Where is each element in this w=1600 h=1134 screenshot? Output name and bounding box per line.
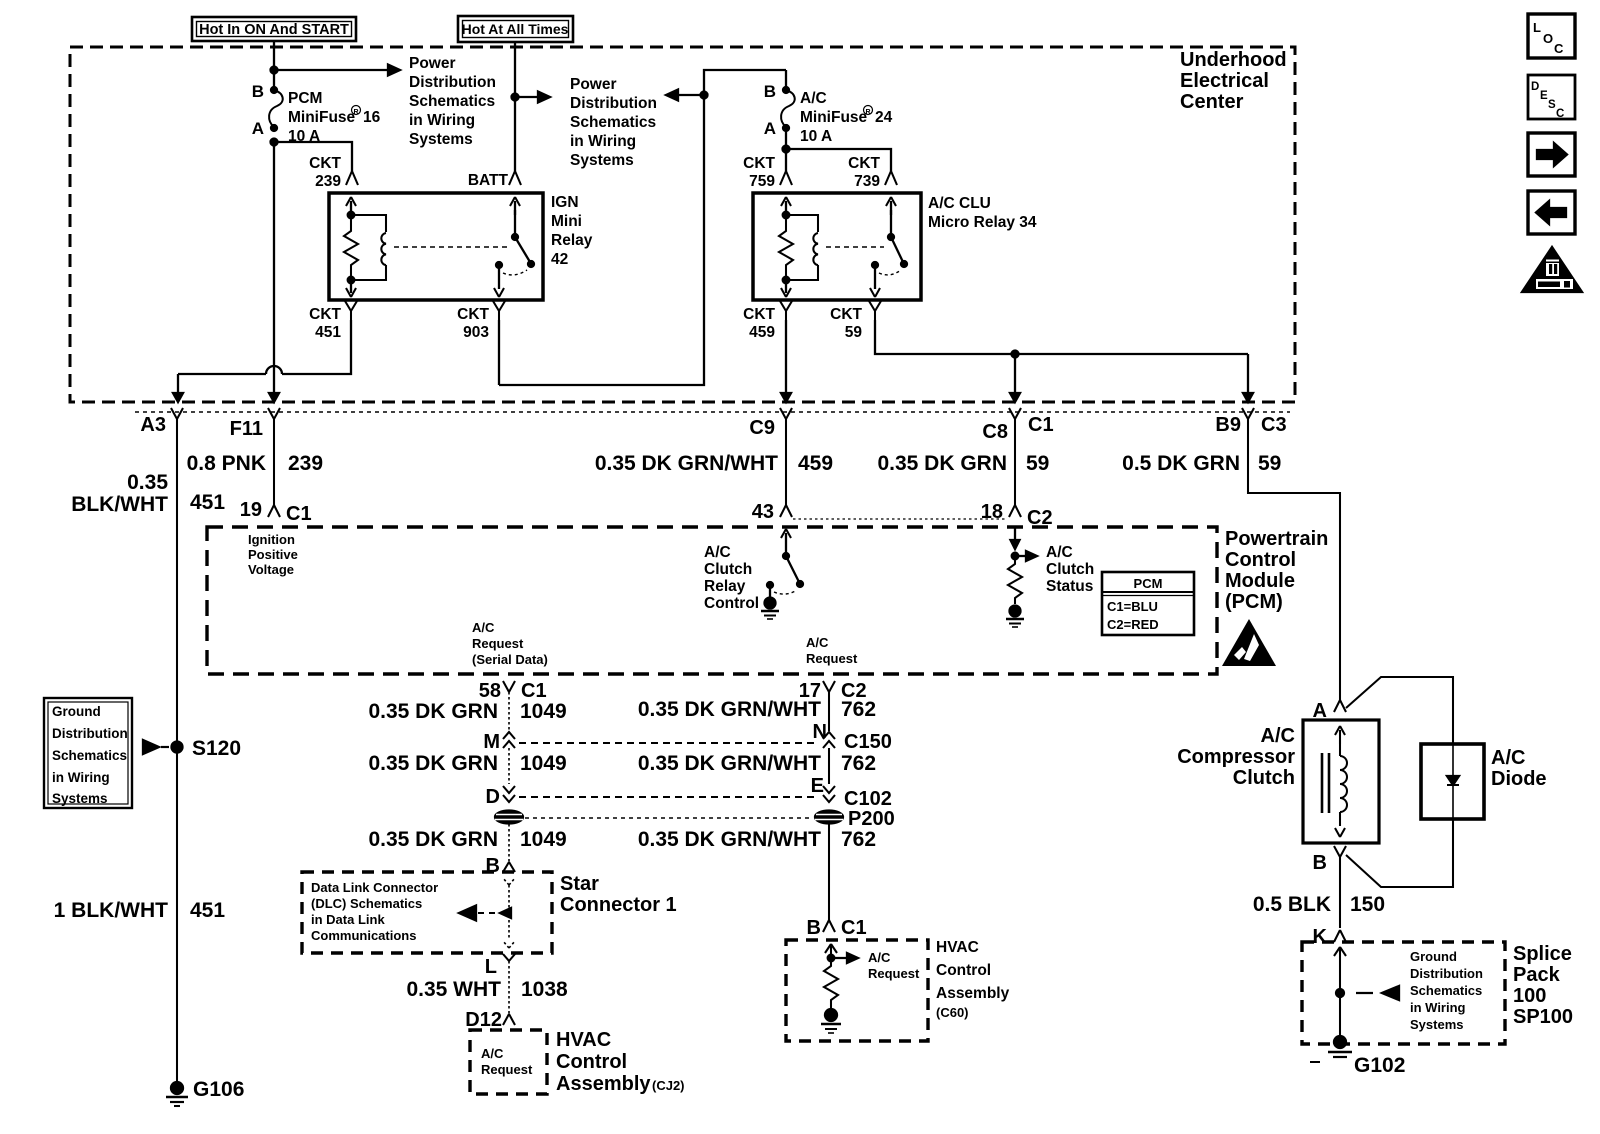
node junction in splice pack xyxy=(1336,989,1344,997)
svg-text:1038: 1038 xyxy=(521,978,568,1001)
connector C150 inline row xyxy=(483,721,891,753)
PCM clutch relay driver switch xyxy=(781,529,803,587)
icon DESC button xyxy=(1528,75,1575,120)
HVAC control assembly C60 dashed box xyxy=(786,940,928,1041)
svg-text:BLK/WHT: BLK/WHT xyxy=(71,493,168,516)
pin CKT739 into relay K2 (fork) xyxy=(885,171,897,185)
A/C diode box xyxy=(1421,744,1484,819)
svg-text:E: E xyxy=(1540,90,1548,102)
svg-text:Systems: Systems xyxy=(52,791,108,806)
svg-text:(Serial Data): (Serial Data) xyxy=(472,652,548,667)
svg-text:Relay: Relay xyxy=(551,232,593,249)
label Ground Distribution Schematics in Wiring Systems (splice) xyxy=(1410,949,1483,1032)
relay K1 coil resistor xyxy=(344,212,358,284)
svg-text:762: 762 xyxy=(841,752,876,775)
svg-text:Request: Request xyxy=(481,1062,533,1077)
relay K1 coil winding parallel branch xyxy=(351,215,386,280)
relay K2 NO contact to CKT59 xyxy=(870,262,901,297)
svg-text:18: 18 xyxy=(981,501,1003,523)
svg-text:Connector 1: Connector 1 xyxy=(560,894,677,916)
relay K1 actuating dashed link xyxy=(394,246,508,248)
svg-text:B: B xyxy=(807,917,821,939)
pin C8 / C1 connector fork xyxy=(982,408,1053,443)
svg-text:43: 43 xyxy=(752,501,774,523)
pin 17 C2 fork below PCM xyxy=(799,680,867,702)
label 1 BLK/WHT 451 xyxy=(54,899,226,922)
pin B fork into star connector xyxy=(486,855,515,877)
svg-text:0.35 DK GRN: 0.35 DK GRN xyxy=(368,752,498,775)
svg-text:in Wiring: in Wiring xyxy=(570,133,636,150)
svg-text:A/C: A/C xyxy=(806,635,829,650)
PCM clutch status resistor xyxy=(1008,556,1022,604)
wire 0.5 DK GRN 59 C3 to compressor clutch A xyxy=(1248,428,1340,700)
label Data Link Connector (DLC) Schematics xyxy=(311,880,438,943)
label A/C Diode xyxy=(1491,747,1547,790)
svg-text:IGN: IGN xyxy=(551,194,579,211)
label Splice Pack 100 SP100 xyxy=(1513,943,1573,1028)
svg-text:Distribution: Distribution xyxy=(52,726,128,741)
svg-text:R: R xyxy=(865,109,870,116)
node junction below fuse F2 xyxy=(783,128,790,171)
ground G102 xyxy=(1310,1036,1405,1077)
svg-text:42: 42 xyxy=(551,251,568,268)
svg-text:E: E xyxy=(811,775,824,797)
svg-text:762: 762 xyxy=(841,828,876,851)
wire 762 segment 1 xyxy=(828,692,830,731)
wire CKT59 down and across to C1 and C3 xyxy=(875,320,1253,402)
node junction below fuse F1 xyxy=(271,139,278,146)
label A/C Clutch Status xyxy=(1046,544,1094,595)
svg-text:Systems: Systems xyxy=(570,152,634,169)
label Power Distribution Schematics in Wiring Systems (left) xyxy=(409,55,496,148)
svg-text:A/C: A/C xyxy=(868,950,891,965)
svg-text:C150: C150 xyxy=(844,731,892,753)
pin K fork into splice pack xyxy=(1313,926,1346,948)
PCM driver ground contact xyxy=(767,582,797,597)
svg-text:10 A: 10 A xyxy=(800,128,832,145)
svg-text:0.8 PNK: 0.8 PNK xyxy=(187,452,266,475)
relay K1 NO contact to CKT903 xyxy=(494,262,527,297)
svg-text:B: B xyxy=(764,82,776,101)
relay K2 coil winding parallel branch xyxy=(786,215,818,280)
label A/C Request (pin 17) xyxy=(806,635,858,666)
svg-text:0.35 DK GRN/WHT: 0.35 DK GRN/WHT xyxy=(595,452,778,475)
svg-text:SP100: SP100 xyxy=(1513,1006,1573,1028)
label A/C Compressor Clutch xyxy=(1177,725,1295,789)
svg-text:459: 459 xyxy=(749,324,775,341)
pin CKT239 into relay (fork) xyxy=(346,171,358,185)
label 0.5 BLK 150 xyxy=(1253,893,1385,916)
svg-text:Control: Control xyxy=(1225,549,1296,571)
svg-text:Systems: Systems xyxy=(409,131,473,148)
fuse F1 PCM MiniFuse 16 10A xyxy=(252,82,283,138)
svg-text:Assembly: Assembly xyxy=(936,985,1010,1002)
svg-text:Underhood: Underhood xyxy=(1180,49,1287,71)
PCM connector color table xyxy=(1102,572,1194,635)
wire CKT903 down-right to riser xyxy=(498,320,500,385)
svg-text:Compressor: Compressor xyxy=(1177,746,1295,768)
wire 0.8 PNK 239 F11 to PCM pin19 xyxy=(273,428,275,505)
svg-text:D: D xyxy=(1531,81,1539,93)
ground symbol inside PCM (driver) xyxy=(761,598,779,620)
relay K2 coil resistor xyxy=(779,212,793,284)
label CKT 239 xyxy=(309,155,341,190)
svg-text:58: 58 xyxy=(479,680,501,702)
svg-text:Ground: Ground xyxy=(1410,949,1457,964)
wire 239 main down to F11 xyxy=(269,142,279,402)
label IGN Mini Relay 42 xyxy=(551,194,593,268)
svg-text:Module: Module xyxy=(1225,570,1295,592)
label Powertrain Control Module (PCM) xyxy=(1225,528,1328,613)
svg-text:A: A xyxy=(252,119,264,138)
svg-text:(C60): (C60) xyxy=(936,1005,969,1020)
svg-text:L: L xyxy=(485,956,497,978)
diode symbol xyxy=(1447,744,1459,819)
relay K2 A/C CLU Micro Relay 34 box xyxy=(753,193,921,300)
svg-text:(CJ2): (CJ2) xyxy=(652,1078,685,1093)
svg-text:C: C xyxy=(1556,108,1564,120)
svg-text:D12: D12 xyxy=(465,1009,502,1031)
label A/C MiniFuse 24 10 A xyxy=(800,90,893,145)
svg-text:Control: Control xyxy=(704,595,759,612)
wire from Hot In ON And START down to fuse xyxy=(273,41,275,90)
relay K1 IGN Mini Relay 42 box xyxy=(329,193,543,300)
svg-text:MiniFuse: MiniFuse xyxy=(288,109,356,126)
svg-text:Schematics: Schematics xyxy=(1410,983,1482,998)
connector row dotted line xyxy=(135,411,1290,413)
svg-text:P200: P200 xyxy=(848,808,895,830)
label Ground Distribution Schematics in Wiring Systems (left) xyxy=(52,704,128,806)
svg-text:451: 451 xyxy=(190,491,225,514)
HVAC C60 resistor xyxy=(824,958,838,1008)
svg-text:F11: F11 xyxy=(230,418,263,440)
svg-text:A/C: A/C xyxy=(704,544,731,561)
svg-text:Mini: Mini xyxy=(551,213,582,230)
arrow to splice S120 xyxy=(143,740,169,754)
wire CKT 903 riser up to A/C fuse feed xyxy=(499,70,786,385)
pin 58 C1 fork below PCM xyxy=(479,680,547,702)
label 0.5 DK GRN 59 xyxy=(1122,452,1281,475)
svg-text:Schematics: Schematics xyxy=(570,114,656,131)
label CKT 459 xyxy=(743,306,775,341)
relay K1 switch blade xyxy=(512,234,534,267)
pin L fork below star connector xyxy=(485,954,515,978)
svg-text:in Wiring: in Wiring xyxy=(409,112,475,129)
svg-text:Distribution: Distribution xyxy=(409,74,496,91)
fuse F2 A/C MiniFuse 24 10A xyxy=(764,70,795,138)
svg-text:B: B xyxy=(1313,852,1327,874)
icon LOC button xyxy=(1528,14,1575,58)
svg-text:Powertrain: Powertrain xyxy=(1225,528,1328,550)
label CKT 59 xyxy=(830,306,862,341)
svg-text:Assembly: Assembly xyxy=(556,1073,651,1095)
svg-text:Hot In ON And START: Hot In ON And START xyxy=(199,22,349,38)
ground distribution reference box (left) xyxy=(44,698,132,808)
PCM clutch status input arrow xyxy=(1011,527,1038,561)
svg-text:C3: C3 xyxy=(1261,414,1287,436)
svg-text:A3: A3 xyxy=(140,414,166,436)
svg-text:1049: 1049 xyxy=(520,752,567,775)
svg-text:59: 59 xyxy=(1258,452,1281,475)
svg-text:59: 59 xyxy=(1026,452,1049,475)
svg-text:G106: G106 xyxy=(193,1078,244,1101)
label 0.35 BLK/WHT 451 xyxy=(71,471,225,516)
compressor clutch coil xyxy=(1335,726,1347,837)
relay K2 switch common from CKT739 xyxy=(886,197,896,237)
svg-text:C1: C1 xyxy=(286,503,312,525)
HVAC C60 input arrow xyxy=(825,944,858,963)
label 0.35 DK GRN/WHT 762 (3) xyxy=(638,828,876,851)
svg-text:Clutch: Clutch xyxy=(1233,767,1295,789)
label BATT xyxy=(468,172,509,189)
wire serial data 1049 segment 1 xyxy=(508,692,510,731)
svg-text:C1=BLU: C1=BLU xyxy=(1107,599,1158,614)
svg-text:CKT: CKT xyxy=(457,306,489,323)
relay K2 actuating dashed link xyxy=(826,246,884,248)
relay K2 coil pin arrow up xyxy=(781,197,791,215)
pin BATT into relay (fork) xyxy=(509,171,521,185)
node junction on BATT feed xyxy=(512,94,519,101)
connector C102 inline row xyxy=(486,775,892,810)
svg-text:S: S xyxy=(1548,99,1556,111)
pin CKT903 fork below relay K1 xyxy=(493,301,505,320)
compressor clutch plates xyxy=(1322,753,1329,813)
svg-text:MiniFuse: MiniFuse xyxy=(800,109,868,126)
svg-text:Diode: Diode xyxy=(1491,768,1547,790)
svg-text:Request: Request xyxy=(472,636,524,651)
svg-text:C102: C102 xyxy=(844,788,892,810)
label Underhood Electrical Center xyxy=(1180,49,1287,113)
svg-text:C9: C9 xyxy=(749,417,775,439)
svg-text:1049: 1049 xyxy=(520,828,567,851)
svg-text:59: 59 xyxy=(845,324,863,341)
svg-text:HVAC: HVAC xyxy=(936,939,979,956)
wire BATT from Hot At All Times xyxy=(514,42,516,171)
pin C9 connector fork xyxy=(749,408,792,439)
svg-text:Request: Request xyxy=(806,651,858,666)
label PCM MiniFuse 16 10 A xyxy=(288,90,381,145)
svg-text:HVAC: HVAC xyxy=(556,1029,611,1051)
node junction on ignition feed xyxy=(271,67,278,74)
ground G106 xyxy=(166,1078,244,1106)
svg-text:0.35 DK GRN: 0.35 DK GRN xyxy=(368,700,498,723)
svg-text:1049: 1049 xyxy=(520,700,567,723)
Star Connector 1 dashed box xyxy=(302,872,552,953)
svg-text:Star: Star xyxy=(560,873,599,895)
pin B C1 fork into HVAC C60 xyxy=(807,917,867,939)
svg-text:A/C: A/C xyxy=(1046,544,1073,561)
svg-text:Control: Control xyxy=(936,962,991,979)
svg-text:0.35: 0.35 xyxy=(127,471,168,494)
splice S120 xyxy=(172,737,242,760)
pin 19 C1 fork into PCM xyxy=(240,499,312,525)
icon next arrow button xyxy=(1528,133,1575,176)
svg-text:Center: Center xyxy=(1180,91,1244,113)
wire CKT 239 branch to relay coil xyxy=(274,142,352,171)
HVAC control assembly CJ2 dashed box xyxy=(470,1030,547,1094)
wire branch B to diode xyxy=(1346,819,1453,887)
svg-text:0.5 BLK: 0.5 BLK xyxy=(1253,893,1331,916)
relay K2 switch blade xyxy=(888,234,907,267)
pin A3 connector fork xyxy=(140,408,183,436)
svg-text:Schematics: Schematics xyxy=(409,93,495,110)
svg-text:CKT: CKT xyxy=(309,155,341,172)
svg-text:A: A xyxy=(764,119,776,138)
grommet P200 right xyxy=(815,811,843,824)
svg-text:PCM: PCM xyxy=(1134,576,1163,591)
svg-text:in Wiring: in Wiring xyxy=(52,770,110,785)
svg-text:C8: C8 xyxy=(982,421,1008,443)
svg-text:Status: Status xyxy=(1046,578,1093,595)
svg-text:O: O xyxy=(1543,31,1553,46)
PCM dashed enclosure xyxy=(207,527,1217,674)
svg-text:in Wiring: in Wiring xyxy=(1410,1000,1466,1015)
svg-text:G102: G102 xyxy=(1354,1054,1405,1077)
svg-text:C2=RED: C2=RED xyxy=(1107,617,1159,632)
svg-text:Clutch: Clutch xyxy=(704,561,752,578)
relay K1 coil pin arrow up xyxy=(346,197,356,215)
svg-text:A/C: A/C xyxy=(472,620,495,635)
svg-text:0.35 DK GRN: 0.35 DK GRN xyxy=(368,828,498,851)
label CKT 451 xyxy=(309,306,341,341)
svg-text:Schematics: Schematics xyxy=(52,748,127,763)
pin CKT59 fork below relay K2 xyxy=(869,301,881,320)
label CKT 739 xyxy=(848,155,880,190)
arrow to ground distribution text xyxy=(1356,986,1399,1000)
dotted link between pin43 and pin18 xyxy=(793,518,1006,520)
label Star Connector 1 xyxy=(560,873,677,916)
wire inside star connector xyxy=(503,878,515,948)
svg-text:(PCM): (PCM) xyxy=(1225,591,1283,613)
svg-text:CKT: CKT xyxy=(743,155,775,172)
label A/C Request (Serial Data) xyxy=(472,620,548,667)
splice pack internal wire xyxy=(1334,947,1346,1038)
wire 0.5 BLK 150 xyxy=(1339,857,1341,928)
wire 1 BLK/WHT 451 to G106 xyxy=(176,747,178,1084)
label A/C Request (CJ2 box) xyxy=(481,1046,533,1077)
pin B fork below compressor clutch xyxy=(1313,846,1346,874)
pin 43 fork into PCM xyxy=(752,501,792,523)
svg-text:762: 762 xyxy=(841,698,876,721)
svg-text:A/C CLU: A/C CLU xyxy=(928,195,991,212)
svg-text:K: K xyxy=(1313,926,1328,948)
label 0.35 DK GRN 59 xyxy=(877,452,1049,475)
svg-text:(DLC) Schematics: (DLC) Schematics xyxy=(311,896,422,911)
wire CKT459 down to C9 xyxy=(781,320,791,402)
wire 762 segment 3 xyxy=(828,824,830,920)
svg-text:L: L xyxy=(1533,20,1541,35)
svg-text:CKT: CKT xyxy=(848,155,880,172)
svg-text:16: 16 xyxy=(363,109,381,126)
svg-text:Ignition: Ignition xyxy=(248,532,295,547)
wire arrow to power distribution (mid) xyxy=(515,92,550,103)
ESD symbol PCM xyxy=(1222,619,1276,666)
svg-text:C: C xyxy=(1554,41,1564,56)
svg-text:0.35 DK GRN/WHT: 0.35 DK GRN/WHT xyxy=(638,828,821,851)
wire 0.35 DK GRN/WHT 459 C9 to PCM pin43 xyxy=(785,428,787,505)
relay K1 coil pin arrow down xyxy=(346,280,356,297)
label 0.35 WHT 1038 xyxy=(406,978,568,1001)
svg-text:PCM: PCM xyxy=(288,90,322,107)
svg-text:Hot At All Times: Hot At All Times xyxy=(462,21,569,37)
svg-text:N: N xyxy=(813,721,827,743)
svg-text:24: 24 xyxy=(875,109,893,126)
svg-text:R: R xyxy=(353,109,358,116)
svg-text:A/C: A/C xyxy=(1491,747,1525,769)
label Power Distribution Schematics in Wiring Systems (mid) xyxy=(570,76,657,169)
svg-text:CKT: CKT xyxy=(830,306,862,323)
svg-text:Voltage: Voltage xyxy=(248,562,294,577)
splice pack 100 dashed box xyxy=(1302,942,1505,1044)
pin CKT759 into relay K2 (fork) xyxy=(780,171,792,185)
svg-text:100: 100 xyxy=(1513,985,1546,1007)
svg-text:Micro Relay 34: Micro Relay 34 xyxy=(928,214,1037,231)
pin CKT459 fork below relay K2 xyxy=(780,301,792,320)
label box "Hot At All Times" xyxy=(458,16,573,42)
ground symbol HVAC C60 xyxy=(821,1009,841,1033)
pin B9 / C3 connector fork xyxy=(1215,408,1286,436)
svg-text:239: 239 xyxy=(315,173,341,190)
label 0.35 DK GRN/WHT 459 xyxy=(595,452,833,475)
wire CKT451 down-left to A3 xyxy=(173,320,351,402)
svg-text:451: 451 xyxy=(315,324,341,341)
wire arrow from CKT903 riser to power distribution (pointing left) xyxy=(666,90,704,101)
pin 18 C2 fork into PCM xyxy=(981,501,1053,529)
svg-text:Pack: Pack xyxy=(1513,964,1561,986)
svg-text:459: 459 xyxy=(798,452,833,475)
svg-text:Electrical: Electrical xyxy=(1180,70,1269,92)
svg-text:Systems: Systems xyxy=(1410,1017,1463,1032)
wire serial data 1049 segment 2 xyxy=(508,748,510,784)
label HVAC Control Assembly (C60) xyxy=(936,939,1010,1020)
svg-text:A/C: A/C xyxy=(1261,725,1295,747)
svg-text:Ground: Ground xyxy=(52,704,101,719)
label CKT 903 xyxy=(457,306,489,341)
svg-text:Communications: Communications xyxy=(311,928,416,943)
svg-text:Splice: Splice xyxy=(1513,943,1572,965)
relay K2 coil pin arrow down xyxy=(781,280,791,297)
svg-text:Power: Power xyxy=(409,55,456,72)
label A/C CLU Micro Relay 34 xyxy=(928,195,1037,231)
wire 0.35 WHT 1038 xyxy=(508,961,510,1014)
wire branch A to diode xyxy=(1346,677,1453,744)
Underhood Electrical Center dashed enclosure xyxy=(70,47,1295,402)
label CKT 759 xyxy=(743,155,775,190)
label 0.35 DK GRN/WHT 762 (2) xyxy=(638,752,876,775)
svg-text:Request: Request xyxy=(868,966,920,981)
svg-text:B: B xyxy=(252,82,264,101)
svg-text:0.35 DK GRN/WHT: 0.35 DK GRN/WHT xyxy=(638,698,821,721)
wire 0.35 DK GRN 59 C1 to PCM pin18 xyxy=(1014,428,1016,505)
svg-text:C1: C1 xyxy=(521,680,547,702)
A/C compressor clutch box xyxy=(1303,720,1379,843)
svg-text:0.35 DK GRN: 0.35 DK GRN xyxy=(877,452,1007,475)
wire 762 segment 2 xyxy=(828,748,830,784)
grommet P200 left xyxy=(495,811,523,824)
relay K1 switch common from BATT xyxy=(510,197,520,237)
svg-text:Distribution: Distribution xyxy=(1410,966,1483,981)
label A/C Request (C60 box) xyxy=(868,950,920,981)
label 0.35 DK GRN 1049 (2) xyxy=(368,752,566,775)
svg-text:Distribution: Distribution xyxy=(570,95,657,112)
label HVAC Control Assembly (CJ2) xyxy=(556,1029,685,1095)
svg-text:739: 739 xyxy=(854,173,880,190)
icon caution triangle xyxy=(1522,247,1582,292)
svg-text:in Data Link: in Data Link xyxy=(311,912,385,927)
label 0.8 PNK 239 xyxy=(187,452,323,475)
svg-text:19: 19 xyxy=(240,499,262,521)
svg-text:S120: S120 xyxy=(192,737,241,760)
